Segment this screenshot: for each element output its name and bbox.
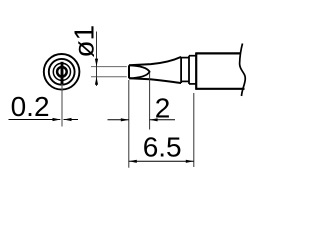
6.5 dimension line (inside arrows) [129, 160, 194, 163]
break line [240, 44, 246, 97]
front view outer circle [44, 54, 80, 90]
0.2 dimension line left segment with arrow [9, 118, 61, 121]
tip end flat edge [128, 65, 130, 78]
body left edge [195, 52, 197, 89]
ø1 extension line bottom [91, 76, 127, 78]
chisel grind leaf [129, 65, 150, 78]
cone base edge [180, 57, 182, 83]
blade edge bar (front view) [61, 62, 64, 85]
svg-text:2: 2 [155, 92, 171, 123]
side view tip outline [129, 44, 245, 97]
collar top edge [189, 55, 196, 57]
neck section bottom edge [181, 80, 189, 82]
extension line from leaf point (2 dim right) [149, 73, 151, 130]
front view circle 3 [53, 63, 70, 80]
svg-text:ø1: ø1 [69, 25, 100, 58]
body top edge [196, 52, 241, 54]
extension line right (6.5 dim) [193, 93, 195, 167]
body bottom edge [196, 88, 244, 90]
front view circle 2 [49, 59, 75, 85]
collar bottom edge [189, 83, 196, 85]
top profile edge [129, 57, 181, 65]
leader line from blade edge down [61, 84, 63, 127]
bottom profile edge [129, 78, 181, 83]
2 dimension line (outside arrows) [108, 118, 176, 121]
0.2 dimension line right segment with arrow [64, 118, 79, 121]
ø1 dimension line vertical with outside arrows [95, 32, 98, 87]
svg-text:0.2: 0.2 [11, 91, 50, 122]
neck section top edge [181, 57, 189, 59]
svg-text:6.5: 6.5 [143, 131, 182, 162]
front view circle 4 (thick inner) [57, 67, 67, 77]
extension line from tip end (shared by 2 and 6.5 dims) [128, 80, 130, 168]
plating step edge [188, 56, 190, 84]
ø1 extension line top [91, 66, 127, 68]
